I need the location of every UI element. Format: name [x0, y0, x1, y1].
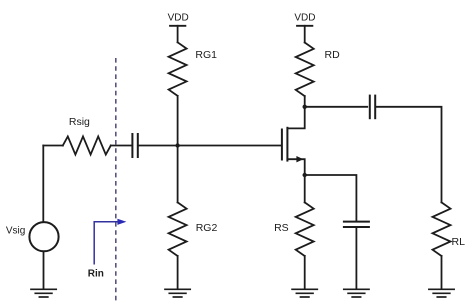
transistor M1 channel bar: [286, 128, 288, 161]
svg-text:RG1: RG1: [195, 49, 217, 61]
ground (RL): [429, 289, 454, 297]
node gate junction: [175, 143, 179, 147]
svg-text:Vsig: Vsig: [6, 225, 25, 236]
resistor RG1: [169, 42, 187, 96]
wire drain node to C2: [305, 106, 368, 108]
wire Vsig branch vertical: [42, 146, 44, 223]
transistor M1 drain lead: [287, 107, 304, 129]
wire RG1 to gate node: [177, 96, 179, 146]
svg-text:VDD: VDD: [294, 13, 315, 24]
wire source node to RS: [304, 175, 306, 202]
resistor Rsig: [63, 136, 111, 154]
wire gate node to RG2: [177, 146, 179, 203]
svg-text:RG2: RG2: [196, 222, 218, 234]
wire Rsig to C1: [111, 145, 131, 147]
svg-text:Rin: Rin: [88, 269, 104, 280]
dashed line Rin boundary: [115, 58, 117, 302]
wire C2 to output column: [376, 107, 441, 203]
svg-text:Rsig: Rsig: [69, 116, 90, 128]
resistor RS: [296, 202, 314, 256]
VDD rail (right): [297, 25, 312, 27]
ground (RS): [292, 289, 317, 297]
wire C3 to ground: [355, 228, 357, 289]
wire RS to ground: [304, 256, 306, 289]
svg-text:RD: RD: [325, 49, 341, 61]
arrow Rin: [94, 219, 126, 265]
wire RL to ground: [441, 256, 443, 289]
transistor M1 source lead: [287, 159, 304, 175]
capacitor C2 (output coupling): [370, 96, 375, 119]
ground (C3): [344, 289, 369, 297]
transistor M1 gate bar: [281, 130, 283, 160]
wire RD to drain node: [304, 96, 306, 107]
wire Vsig to ground: [43, 251, 45, 288]
node source junction: [303, 173, 307, 177]
resistor RG2: [169, 202, 187, 256]
wire VDD to RG1: [177, 26, 179, 43]
capacitor C3 (bypass): [344, 222, 369, 227]
svg-text:VDD: VDD: [168, 13, 189, 24]
resistor RL: [433, 202, 451, 256]
svg-text:RS: RS: [274, 222, 289, 234]
wire C1 to gate: [139, 145, 281, 147]
resistor RD: [296, 43, 314, 97]
transistor M1 source arrow: [296, 156, 303, 162]
ground (Vsig): [31, 289, 56, 297]
capacitor C1 (input coupling): [132, 134, 137, 157]
voltage source Vsig: [29, 222, 58, 251]
svg-text:RL: RL: [452, 236, 466, 248]
VDD rail (left): [170, 25, 185, 27]
wire RG2 to ground: [177, 256, 179, 289]
node drain junction: [303, 105, 307, 109]
ground (RG2): [165, 289, 190, 297]
wire Vsig to Rsig: [43, 145, 63, 147]
wire VDD to RD: [304, 26, 306, 43]
wire source node to C3: [305, 175, 357, 221]
